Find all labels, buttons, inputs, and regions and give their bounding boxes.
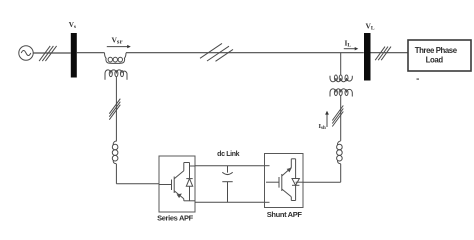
svg-text:Load: Load	[426, 56, 444, 65]
svg-text:Ish: Ish	[319, 123, 326, 131]
svg-text:Three Phase: Three Phase	[415, 46, 458, 55]
svg-text:Vsr: Vsr	[112, 36, 123, 46]
svg-text:Vs: Vs	[69, 21, 76, 30]
svg-text:IL: IL	[345, 39, 352, 49]
svg-text:dc Link: dc Link	[217, 151, 240, 158]
svg-text:Shunt APF: Shunt APF	[267, 210, 303, 219]
svg-text:Series APF: Series APF	[157, 214, 194, 223]
svg-text:VL: VL	[366, 22, 375, 32]
